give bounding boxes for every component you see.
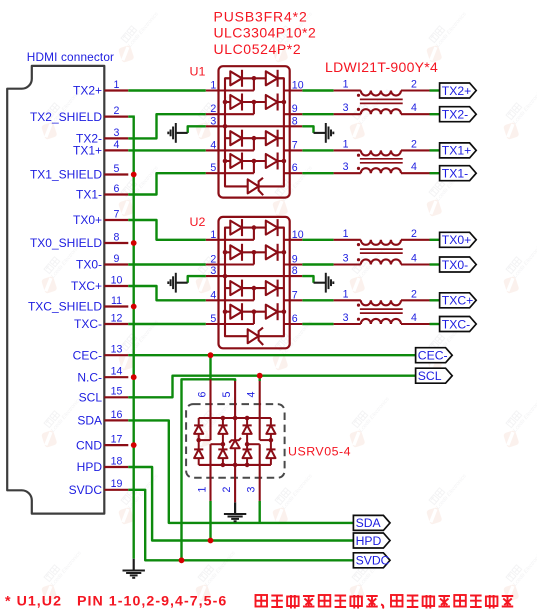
U2 pin 7 [284, 289, 302, 301]
wire choke-to-label y=300.3 [430, 299, 440, 301]
svg-text:N.C-: N.C- [77, 370, 102, 384]
svg-text:16: 16 [111, 409, 123, 421]
ground (U1 pin 8) [302, 123, 333, 143]
ground (U1 pin 3) [168, 123, 206, 143]
connector pin 13 (CEC-) [73, 344, 129, 363]
USRV channel 4 lower diode [266, 440, 275, 465]
net label CEC- [416, 348, 453, 363]
svg-text:2: 2 [114, 105, 120, 117]
U1 pin 7 [284, 139, 302, 151]
connector pin 5 (TX1_SHIELD) [30, 163, 128, 182]
svg-text:4: 4 [411, 102, 417, 114]
wire choke-to-label y=173.2 [430, 172, 440, 174]
wire U-to-choke y=114.2 [302, 113, 333, 115]
wire SDA net [128, 420, 353, 523]
U1 pin 10 [284, 80, 304, 92]
svg-text:3: 3 [343, 312, 349, 324]
svg-text:4: 4 [411, 253, 417, 265]
L2 winding 2 (pins 3-4) [334, 161, 430, 173]
net label TX2+ [440, 83, 477, 98]
connector pin 17 (CND) [76, 434, 128, 453]
svg-text:7: 7 [292, 289, 298, 301]
svg-text:TX0-: TX0- [442, 258, 468, 272]
net label TX0- [440, 257, 477, 272]
common-mode choke L2 winding 1 (pins 1-2) [334, 138, 430, 156]
svg-text:2: 2 [221, 486, 233, 492]
USRV center zener [229, 418, 241, 465]
svg-text:CEC-: CEC- [418, 349, 448, 363]
connector pin 2 (TX2_SHIELD) [30, 105, 128, 124]
svg-text:8: 8 [114, 231, 120, 243]
junction [208, 352, 214, 358]
U2 pin 10 [284, 229, 304, 241]
connector pin 12 (TXC-) [74, 312, 128, 331]
svg-text:1: 1 [343, 288, 349, 300]
svg-text:TX2+: TX2+ [73, 84, 102, 98]
U1 zener diode [248, 178, 264, 195]
svg-text:SDA: SDA [356, 516, 382, 530]
svg-text:TXC-: TXC- [74, 317, 102, 331]
wire USRV pin 1 to HPD [209, 501, 211, 541]
USRV channel 2 upper diode [218, 418, 227, 447]
U1 pin 4 [206, 139, 254, 151]
svg-text:2: 2 [210, 254, 216, 266]
net label HPD [353, 533, 390, 548]
wire U-to-choke y=173.2 [302, 172, 333, 174]
ground (U2 pin 3) [168, 273, 206, 293]
svg-text:2: 2 [411, 228, 417, 240]
junction [131, 172, 137, 178]
L2 core [360, 159, 403, 163]
U1 pin 3 / pin 8 line [206, 115, 302, 128]
U2 pin 3 / pin 8 line [206, 265, 302, 278]
svg-text:11: 11 [111, 295, 122, 307]
svg-text:4: 4 [114, 139, 120, 151]
value label ULC3304P10*2 [214, 25, 317, 41]
wire TX2_SHIELD stub [128, 115, 135, 117]
connector pin 10 (TXC+) [71, 274, 128, 293]
svg-text:ULC0524P*2: ULC0524P*2 [214, 41, 302, 57]
svg-text:TXC_SHIELD: TXC_SHIELD [28, 300, 102, 314]
U1 left rail [225, 78, 248, 186]
ground (U2 pin 8) [302, 273, 333, 293]
svg-text:HDMI connector: HDMI connector [27, 50, 114, 64]
L3 core [360, 249, 403, 253]
U2 right rail [259, 228, 284, 337]
svg-text:10: 10 [292, 229, 304, 241]
note: U1,U2 pin connection note [5, 594, 513, 610]
svg-text:SCL: SCL [79, 391, 103, 405]
svg-text:5: 5 [114, 163, 120, 175]
wire CEC- to USRV pin 6 [209, 355, 211, 379]
wire TX0+ net [128, 220, 206, 240]
svg-text:2: 2 [411, 288, 417, 300]
U1 pin 1 [206, 80, 254, 92]
wire TX1+ net [128, 149, 206, 151]
USRV pin 5 [221, 381, 235, 418]
svg-text:3: 3 [343, 102, 349, 114]
svg-text:3: 3 [246, 486, 258, 492]
junction [131, 374, 137, 380]
svg-text:5: 5 [210, 162, 216, 174]
connector pin 18 (HPD) [77, 455, 129, 474]
U1 diode pair row (pin 1) [225, 70, 284, 91]
wire U-to-choke y=90.5 [302, 89, 333, 91]
svg-text:6: 6 [114, 183, 120, 195]
wire choke-to-label y=264.5 [430, 263, 440, 265]
svg-text:SVDC: SVDC [69, 483, 103, 497]
junction [131, 304, 137, 310]
U2 left rail [225, 228, 248, 337]
common-mode choke L3 winding 1 (pins 1-2) [334, 228, 430, 246]
U1 diode pair row (pin 2) [223, 94, 287, 115]
ESD array U2 body [190, 215, 290, 348]
svg-text:10: 10 [292, 80, 304, 92]
L4 winding 2 (pins 3-4) [334, 312, 430, 324]
svg-text:* U1,U2 PIN 1-10,2-9,4-7,5-6: * U1,U2 PIN 1-10,2-9,4-7,5-6 [5, 594, 227, 610]
junction [257, 373, 263, 379]
U1 right rail [259, 78, 284, 186]
svg-text:3: 3 [114, 127, 120, 139]
USRV channel 2 lower diode [218, 444, 227, 465]
svg-text:1: 1 [210, 229, 216, 241]
svg-text:9: 9 [292, 254, 298, 266]
USRV pin 3 [246, 444, 260, 501]
svg-text:TX2_SHIELD: TX2_SHIELD [30, 110, 102, 124]
U1 pin 6 [284, 162, 302, 174]
connector pin 16 (SDA) [77, 409, 128, 428]
L4 core [360, 309, 403, 313]
L3 winding 2 (pins 3-4) [334, 253, 430, 265]
svg-text:TX1+: TX1+ [442, 144, 471, 158]
U2 diode pair row (pin 5) [223, 303, 287, 324]
svg-text:TXC+: TXC+ [442, 294, 474, 308]
junction [208, 538, 214, 544]
net label TXC- [440, 317, 477, 332]
U2 zener diode [248, 328, 264, 345]
svg-text:1: 1 [343, 138, 349, 150]
junction [131, 442, 137, 448]
svg-text:ULC3304P10*2: ULC3304P10*2 [214, 25, 317, 41]
wire choke-to-label y=239.8 [430, 239, 440, 241]
ground (USRV pin 2) [224, 502, 246, 521]
svg-text:9: 9 [114, 253, 120, 265]
svg-text:4: 4 [210, 289, 216, 301]
svg-text:3: 3 [343, 161, 349, 173]
net label TX1- [440, 166, 477, 181]
U2 pin 1 [206, 229, 254, 241]
U1 pin 5 [206, 162, 254, 174]
wire TX0- net [128, 263, 206, 265]
value label PUSB3FR4*2 [214, 9, 308, 25]
wire HPD net [128, 467, 353, 541]
connector pin 15 (SCL) [79, 386, 129, 405]
svg-text:CEC-: CEC- [73, 348, 102, 362]
svg-text:4: 4 [246, 391, 258, 397]
svg-text:TX1_SHIELD: TX1_SHIELD [30, 168, 102, 182]
svg-text:1: 1 [196, 486, 208, 492]
USRV channel 4 upper diode [266, 418, 275, 442]
USRV channel links [199, 440, 271, 444]
svg-text:17: 17 [111, 434, 123, 446]
USRV pin 4 [246, 381, 260, 440]
wire TX2- net [128, 114, 206, 138]
HDMI connector J1 body [7, 50, 114, 514]
connector pin 1 (TX2+) [73, 79, 128, 98]
svg-text:SVDC: SVDC [356, 554, 390, 568]
wire choke-to-label y=90.5 [430, 89, 440, 91]
wire CEC- net [128, 354, 415, 356]
svg-text:3: 3 [343, 253, 349, 265]
wire U-to-choke y=300.3 [302, 299, 333, 301]
svg-text:6: 6 [196, 391, 208, 397]
connector pin 3 (TX2-) [76, 127, 128, 146]
svg-text:U1: U1 [190, 65, 206, 79]
svg-text:TXC-: TXC- [442, 317, 470, 331]
svg-text:TX1+: TX1+ [73, 144, 102, 158]
wire U-to-choke y=264.5 [302, 263, 333, 265]
connector pin 14 (N.C-) [77, 366, 128, 385]
svg-text:10: 10 [111, 274, 123, 286]
ground (shield bus) [123, 559, 145, 578]
net label SDA [353, 515, 390, 530]
connector pin 9 (TX0-) [76, 253, 128, 272]
svg-text:4: 4 [210, 139, 216, 151]
svg-text:2: 2 [210, 103, 216, 115]
svg-text:3: 3 [210, 115, 216, 127]
wire TXC+ net [128, 286, 206, 300]
net label TX1+ [440, 143, 477, 158]
value label ULC0524P*2 [214, 41, 302, 57]
svg-text:TX0-: TX0- [76, 258, 102, 272]
USRV channel 1 lower diode [194, 440, 203, 465]
net label TXC+ [440, 293, 477, 308]
svg-text:7: 7 [114, 208, 120, 220]
U1 pin 9 [284, 103, 302, 115]
U2 diode pair row (pin 2) [223, 244, 287, 265]
U2 pin 5 [206, 313, 254, 325]
wire U-to-choke y=239.8 [302, 239, 333, 241]
L1 core [360, 99, 403, 103]
connector pin 8 (TX0_SHIELD) [30, 231, 128, 250]
svg-text:8: 8 [292, 115, 298, 127]
TVS diode array USRV05-4 (dashed body) [186, 404, 351, 478]
svg-text:CND: CND [76, 438, 102, 452]
wire U-to-choke y=324.0 [302, 323, 333, 325]
USRV channel 3 upper diode [243, 418, 252, 447]
U2 pin 6 [284, 313, 302, 325]
svg-text:TX1-: TX1- [76, 188, 102, 202]
USRV pin 1 [196, 444, 210, 501]
svg-text:TX0+: TX0+ [442, 233, 471, 247]
svg-text:9: 9 [292, 103, 298, 115]
svg-text:5: 5 [221, 391, 233, 397]
svg-text:4: 4 [411, 312, 417, 324]
svg-text:13: 13 [111, 344, 123, 356]
wire shield bus vertical [132, 117, 134, 559]
connector pin 11 (TXC_SHIELD) [28, 295, 128, 314]
svg-text:2: 2 [411, 79, 417, 91]
USRV channel 1 upper diode [194, 418, 203, 442]
svg-text:19: 19 [111, 478, 123, 490]
svg-text:4: 4 [411, 161, 417, 173]
svg-text:1: 1 [343, 228, 349, 240]
svg-text:1: 1 [210, 80, 216, 92]
U1 diode pair row (pin 4) [225, 130, 284, 151]
svg-text:7: 7 [292, 139, 298, 151]
U2 pin 2 [206, 254, 254, 266]
wire TX2+ net [128, 89, 206, 91]
wire USRV pin 3 to SDA [259, 501, 261, 523]
svg-text:15: 15 [111, 386, 123, 398]
U1 diode pair row (pin 5) [223, 153, 287, 174]
connector pin 7 (TX0+) [73, 208, 128, 227]
junction [131, 240, 137, 246]
svg-text:1: 1 [343, 79, 349, 91]
wire choke-to-label y=114.2 [430, 113, 440, 115]
svg-text:U2: U2 [190, 215, 206, 229]
wire choke-to-label y=150.4 [430, 149, 440, 151]
USRV top rail (VCC) [199, 416, 271, 421]
svg-text:TX2+: TX2+ [442, 84, 471, 98]
connector pin 6 (TX1-) [76, 183, 128, 202]
svg-text:18: 18 [111, 455, 123, 467]
svg-text:PUSB3FR4*2: PUSB3FR4*2 [214, 9, 308, 25]
wire SVDC net [128, 490, 353, 561]
U1 pin 2 [206, 103, 254, 115]
L1 winding 2 (pins 3-4) [334, 102, 430, 114]
ESD array U1 body [190, 65, 290, 198]
svg-text:HPD: HPD [77, 460, 103, 474]
net label SVDC [353, 553, 390, 568]
U2 diode pair row (pin 1) [225, 219, 284, 240]
U2 pin 9 [284, 254, 302, 266]
value label LDWI21T-900Y*4 [325, 59, 438, 75]
svg-text:TX0_SHIELD: TX0_SHIELD [30, 236, 102, 250]
U2 pin 4 [206, 289, 254, 301]
svg-text:HPD: HPD [356, 534, 382, 548]
junction [179, 557, 185, 563]
wire SCL to USRV pin 4 [259, 376, 261, 381]
USRV pin 2 [221, 465, 235, 502]
svg-text:TX0+: TX0+ [73, 213, 102, 227]
svg-text:USRV05-4: USRV05-4 [288, 445, 351, 459]
svg-text:1: 1 [114, 79, 120, 91]
common-mode choke L1 winding 1 (pins 1-2) [334, 79, 430, 97]
svg-text:2: 2 [411, 138, 417, 150]
USRV bottom rail (GND) [199, 463, 271, 468]
svg-text:LDWI21T-900Y*4: LDWI21T-900Y*4 [325, 59, 438, 75]
net label TX0+ [440, 232, 477, 247]
svg-text:12: 12 [111, 312, 123, 324]
svg-text:TX2-: TX2- [442, 108, 468, 122]
common-mode choke L4 winding 1 (pins 1-2) [334, 288, 430, 306]
wire U-to-choke y=150.4 [302, 149, 333, 151]
svg-text:14: 14 [111, 366, 123, 378]
connector pin 4 (TX1+) [73, 139, 128, 158]
svg-text:5: 5 [210, 313, 216, 325]
USRV pin 6 [196, 379, 210, 440]
svg-text:6: 6 [292, 313, 298, 325]
connector pin 19 (SVDC) [69, 478, 129, 497]
svg-text:3: 3 [210, 265, 216, 277]
svg-text:SCL: SCL [418, 369, 442, 383]
svg-text:6: 6 [292, 162, 298, 174]
wire TXC- net [128, 323, 206, 325]
wire SVDC to USRV pin 5 [182, 379, 236, 560]
USRV channel 3 lower diode [243, 444, 252, 465]
net label TX2- [440, 107, 477, 122]
svg-text:8: 8 [292, 265, 298, 277]
svg-text:TXC+: TXC+ [71, 279, 102, 293]
wire choke-to-label y=324.0 [430, 323, 440, 325]
U2 diode pair row (pin 4) [225, 280, 284, 301]
svg-text:SDA: SDA [77, 414, 102, 428]
wire TX1- net [128, 173, 206, 194]
wire SCL net [128, 376, 415, 398]
svg-text:TX1-: TX1- [442, 167, 468, 181]
net label SCL [416, 368, 453, 383]
